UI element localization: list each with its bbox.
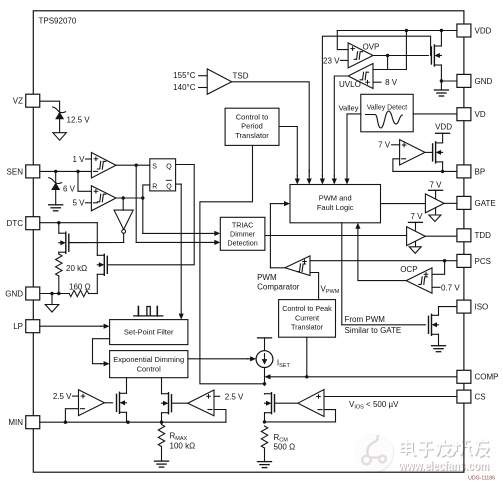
svg-text:COMP: COMP [475,373,499,382]
svg-text:DTC: DTC [7,219,24,228]
svg-text:ISO: ISO [475,303,489,312]
svg-text:PWM and: PWM and [319,194,352,203]
svg-text:5 V: 5 V [72,199,85,208]
svg-text:UVLO: UVLO [339,80,361,89]
svg-text:MIN: MIN [8,418,23,427]
svg-text:Period: Period [241,122,263,131]
svg-text:BP: BP [475,167,486,176]
svg-text:Q: Q [166,163,172,170]
svg-text:GND: GND [5,289,23,298]
svg-text:GATE: GATE [475,199,496,208]
svg-text:PCS: PCS [475,257,491,266]
svg-text:Control to Peak: Control to Peak [282,304,332,313]
svg-text:6 V: 6 V [63,185,76,194]
svg-text:CS: CS [475,393,486,402]
svg-text:SEN: SEN [7,167,24,176]
svg-text:Current: Current [295,313,319,322]
svg-text:UDG-11186: UDG-11186 [468,476,495,482]
svg-text:12.5 V: 12.5 V [67,116,91,125]
svg-text:VD: VD [475,110,486,119]
svg-text:LP: LP [13,322,23,331]
svg-text:7 V: 7 V [378,141,391,150]
svg-text:155°C: 155°C [173,71,196,80]
svg-text:www.elecfans.com: www.elecfans.com [398,459,489,473]
svg-text:Similar to GATE: Similar to GATE [345,326,402,335]
svg-text:VDD: VDD [475,26,492,35]
svg-text:Translator: Translator [235,131,269,140]
svg-text:VDD: VDD [435,123,452,132]
svg-text:Q: Q [166,183,172,190]
svg-text:160 Ω: 160 Ω [69,282,91,291]
svg-text:Exponential Dimming: Exponential Dimming [113,355,184,364]
svg-text:0.7 V: 0.7 V [441,283,460,292]
svg-text:S: S [152,163,157,170]
svg-text:20 kΩ: 20 kΩ [66,264,87,273]
svg-text:VZ: VZ [13,97,23,106]
svg-text:Detection: Detection [227,238,257,247]
svg-text:7 V: 7 V [430,180,443,189]
svg-text:R: R [152,183,157,190]
svg-text:TDD: TDD [475,231,492,240]
svg-text:8 V: 8 V [385,78,398,87]
svg-text:Fault Logic: Fault Logic [317,203,354,212]
svg-text:500 Ω: 500 Ω [274,442,296,451]
svg-text:Control to: Control to [236,112,269,121]
svg-text:Comparator: Comparator [257,283,300,292]
svg-text:100 kΩ: 100 kΩ [170,441,196,450]
svg-text:OVP: OVP [363,42,380,51]
svg-text:Control: Control [137,365,162,374]
svg-text:1 V: 1 V [72,155,85,164]
svg-text:Dimmer: Dimmer [230,229,256,238]
svg-text:140°C: 140°C [173,83,196,92]
svg-text:From PWM: From PWM [345,315,386,324]
svg-text:TPS92070: TPS92070 [39,17,77,26]
svg-text:Set-Point Filter: Set-Point Filter [124,328,174,337]
svg-text:OCP: OCP [400,265,417,274]
svg-text:Translator: Translator [291,323,324,332]
svg-text:PWM: PWM [257,273,277,282]
svg-text:Valley Detect: Valley Detect [367,104,408,111]
svg-text:2.5 V: 2.5 V [53,392,72,401]
svg-text:GND: GND [475,77,493,86]
svg-text:TRIAC: TRIAC [232,220,254,229]
svg-text:TSD: TSD [233,71,249,80]
svg-text:7 V: 7 V [411,212,424,221]
svg-text:Valley: Valley [339,103,359,112]
svg-text:23 V: 23 V [323,57,340,66]
svg-text:2.5 V: 2.5 V [225,392,244,401]
